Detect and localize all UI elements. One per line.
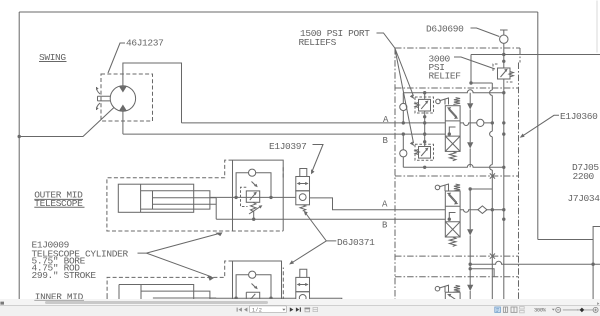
junction c2 B <box>402 132 405 135</box>
inner-mid relief arrow <box>250 294 256 300</box>
anti-cav ball swing <box>477 119 484 126</box>
btn next page <box>290 307 294 311</box>
label SWING <box>39 52 66 63</box>
motor flow triangle bottom <box>119 105 127 111</box>
swing check1 drop <box>402 93 404 104</box>
pilot check OM arrows <box>298 183 308 185</box>
label A swing <box>383 115 389 125</box>
swing pilot spring <box>453 98 460 105</box>
port relief1 arrow <box>421 102 427 109</box>
wire motor A-port up and over <box>123 63 182 123</box>
icon scrolling (disabled) <box>520 307 525 313</box>
outer-mid cylinder barrel <box>118 184 193 212</box>
counterbalance check ball <box>249 169 256 176</box>
counterbalance relief arrow inside <box>250 193 256 200</box>
label E1J0009 block <box>32 240 129 282</box>
main relief valve box <box>498 68 511 79</box>
junction im right <box>269 297 272 300</box>
swing check1 ball <box>400 103 407 110</box>
arrowhead D6J0371 upper <box>304 211 308 216</box>
main relief arrow <box>501 70 507 77</box>
junction bridge1 right <box>502 91 505 94</box>
btn last page <box>296 307 301 311</box>
zoom slider track <box>563 309 594 311</box>
leader E1J0360 <box>522 115 559 136</box>
icon e-book <box>503 307 507 312</box>
port relief2 arrow <box>421 149 427 156</box>
underline INNER MID clipped <box>34 299 84 301</box>
inner-mid check loop <box>236 275 271 299</box>
flow triangle swing bottom <box>467 142 473 148</box>
svg-text:B: B <box>383 136 389 146</box>
label INNER MID <box>35 292 84 303</box>
anti-cav line swing <box>460 123 492 126</box>
svg-text:A: A <box>382 200 388 210</box>
section divider telescope top <box>395 175 519 177</box>
leader E1J0397 <box>312 145 323 172</box>
swing spool X cell <box>445 136 460 151</box>
sheet border / tank line left <box>18 12 20 301</box>
svg-text:D6J0371: D6J0371 <box>337 237 375 248</box>
port relief1 dashed box <box>415 97 434 113</box>
swing spool body <box>445 106 460 152</box>
pilot check OM ball box <box>296 191 310 205</box>
port relief2 spring <box>415 150 419 155</box>
junction cb right <box>269 196 272 199</box>
port relief1 spring <box>415 103 419 108</box>
swing spool mid cell tails <box>449 127 455 134</box>
page edge faint <box>596 1 598 53</box>
pilot check IM arrows <box>298 284 308 286</box>
X plug mark band <box>490 254 495 259</box>
leader fan cylinders <box>138 233 220 276</box>
zoom in button <box>593 307 598 312</box>
junction P vent <box>502 53 505 56</box>
btn select <box>313 307 318 311</box>
junction check1 A <box>402 121 405 124</box>
section divider swing top <box>395 87 519 89</box>
motor shaft <box>98 96 111 101</box>
main relief dashed box <box>493 64 513 82</box>
counterbalance dashed pilot box <box>241 187 248 206</box>
bus line T <box>503 93 505 301</box>
section divider band bottom <box>395 276 519 278</box>
swing check1 to A <box>402 111 404 123</box>
inlet loop left <box>471 55 492 84</box>
junction bridge2 right <box>502 166 505 169</box>
pilot check OM spring <box>300 205 306 211</box>
pilot check OM body <box>296 177 310 191</box>
junction r1 out <box>423 115 426 118</box>
label J7J034 <box>568 193 600 204</box>
label D6J0371 <box>337 237 375 248</box>
junction r1 B <box>423 132 426 135</box>
motor dashed enclosure <box>101 74 153 121</box>
pilot check IM top box <box>300 269 307 277</box>
inner-mid pilot arrow <box>252 284 257 289</box>
wire motor B-port down <box>122 111 124 134</box>
internal vert swing <box>469 93 471 168</box>
toolbar corner arrow <box>597 302 599 305</box>
band tank line <box>470 261 600 264</box>
pilot check OM ball <box>299 194 306 201</box>
telescope spool dividers <box>445 206 460 221</box>
scrollbar left glyph <box>0 302 4 305</box>
swing check2 ball <box>400 150 407 157</box>
junction busT A <box>502 121 505 124</box>
svg-text:RELIEF: RELIEF <box>429 71 462 82</box>
telescope pilot lever <box>439 184 449 191</box>
leader to motor <box>108 43 125 73</box>
icon two-page <box>511 307 517 312</box>
flow triangle swing top <box>467 103 473 109</box>
bus line LS <box>491 83 493 301</box>
junction spool B <box>448 132 451 135</box>
swing bridge top <box>403 90 504 93</box>
telescope spool X cell <box>445 222 460 237</box>
svg-text:B: B <box>382 221 388 231</box>
svg-text:299." STROKE: 299." STROKE <box>32 270 97 281</box>
icon single page (active) <box>495 307 501 312</box>
pressure line <box>471 54 600 56</box>
page box dropdown <box>282 309 285 311</box>
telescope spool body <box>445 191 460 237</box>
wire case drain diagonal <box>19 108 114 137</box>
leader D6J0690 <box>471 28 500 37</box>
leader port reliefs <box>377 33 414 143</box>
port relief2 dashed box <box>415 144 434 160</box>
telescope bridge bottom <box>403 249 504 252</box>
motor rotation arrow upper <box>96 87 100 94</box>
main relief outlet <box>503 79 505 93</box>
inner-mid dashed enclosure <box>107 261 283 301</box>
svg-text:46J1237: 46J1237 <box>126 38 163 49</box>
wire A swing <box>182 122 446 124</box>
wire A telescope right <box>309 198 445 210</box>
zoom out button <box>556 307 561 312</box>
inner-mid cylinder barrel <box>119 285 194 301</box>
band junction upper <box>469 263 472 266</box>
junction inlet loop <box>469 81 472 84</box>
label 46J1237 <box>126 38 163 49</box>
junction LS left <box>469 187 472 190</box>
counterbalance adjust arrow <box>249 207 261 215</box>
label 2200 <box>573 171 595 182</box>
motor rotation arrow lower <box>96 103 100 110</box>
counterbalance pilot arrow <box>252 182 257 187</box>
outer-mid cylinder stage2 <box>141 191 210 209</box>
label A telescope <box>382 200 388 210</box>
counterbalance relief valve box <box>246 191 259 202</box>
poppet diamond <box>478 206 487 214</box>
label E1J0360 <box>560 111 598 122</box>
telescope spring bottom <box>450 237 456 246</box>
valve bank dashed boundary top <box>395 47 520 49</box>
arrowhead upper cylinder <box>215 232 222 236</box>
telescope LS link <box>470 188 492 190</box>
inner frame vertical line <box>537 12 539 240</box>
label D6J0690 <box>426 24 464 35</box>
swing check2 drop <box>402 134 404 150</box>
flow triangle innermid <box>467 285 473 291</box>
label D7J05 <box>572 162 599 173</box>
svg-text:D6J0690: D6J0690 <box>426 24 464 35</box>
inner-mid check ball <box>249 271 256 278</box>
arrowhead relief2 <box>410 142 415 147</box>
wire B swing <box>123 133 445 135</box>
inner-mid relief valve box <box>246 292 259 300</box>
junction cb left <box>234 196 237 199</box>
pilot check OM top box <box>300 169 307 177</box>
junction P lower <box>502 60 505 63</box>
wire rod port down <box>215 198 217 219</box>
label SWING underline <box>39 61 67 63</box>
label OUTER MID <box>34 190 83 201</box>
flow triangle telescope <box>467 229 473 235</box>
pilot check IM body <box>296 277 310 291</box>
swing spool arrows top cell <box>449 108 457 117</box>
innermid pilot circle <box>435 286 440 291</box>
port relief1 box <box>419 99 431 111</box>
zoom slider mid tick <box>578 309 579 311</box>
junction busT B <box>502 132 505 135</box>
label B swing <box>383 136 389 146</box>
innermid spool body <box>445 292 460 300</box>
bus jog at bridge1b <box>490 165 493 170</box>
junction r1 A <box>423 121 426 124</box>
arrowhead E1J0360 <box>520 134 525 138</box>
innermid spool arrows <box>449 295 456 300</box>
zoom slider handle <box>580 308 585 313</box>
band junction lower <box>469 267 472 270</box>
innermid internal vert <box>469 291 471 301</box>
section divider band top <box>395 255 519 257</box>
junction anti-cav bus <box>491 121 494 124</box>
junction drain B <box>252 218 255 221</box>
swing spool dividers <box>445 121 460 136</box>
port relief2 box <box>419 147 431 159</box>
wire B telescope <box>216 218 445 220</box>
svg-text:E1J0397: E1J0397 <box>269 141 306 152</box>
label 1500 PSI PORT RELIEFS <box>299 28 371 48</box>
label B telescope <box>382 221 388 231</box>
swing spring bottom <box>450 151 456 160</box>
pilot check IM ball <box>299 295 306 302</box>
arrowhead D6J0371 lower <box>289 260 294 264</box>
junction bridge2 left <box>423 166 426 169</box>
main relief spring <box>509 72 513 77</box>
junction poppet bus <box>491 208 494 211</box>
junction bridge1 left <box>423 91 426 94</box>
vent check circle D6J0690 <box>500 35 508 43</box>
swing bridge bottom <box>403 164 504 167</box>
junction tel spool B <box>448 218 451 221</box>
valve bank dashed boundary right <box>519 48 521 301</box>
valve bank dashed boundary left <box>394 48 396 301</box>
drain to B wire <box>253 211 255 219</box>
arrowhead E1J0397 <box>311 169 315 174</box>
port relief1 riser <box>424 93 426 147</box>
telescope pilot circle <box>435 185 440 190</box>
innermid pilot spring <box>453 285 460 292</box>
outer-mid cylinder piston <box>140 184 142 212</box>
btn first page <box>237 308 242 312</box>
inner-mid main wire <box>210 298 342 300</box>
frame step right <box>538 227 600 301</box>
sheet border top <box>19 11 538 13</box>
btn snapshot <box>305 308 311 312</box>
inner-mid cylinder stage2 <box>141 291 216 300</box>
junction poppet busT <box>502 208 505 211</box>
btn prev page <box>244 308 247 312</box>
junction tank-drain <box>18 135 21 138</box>
pilot check IM ball box <box>296 292 310 301</box>
swing pilot circle <box>436 99 441 104</box>
label 3000 PSI RELIEF <box>429 54 462 82</box>
telescope pilot spring <box>453 184 460 191</box>
junction busT B2 <box>502 218 505 221</box>
junction im left <box>234 297 237 300</box>
outer-mid valve solid enclosure <box>233 160 284 231</box>
telescope spool arrows top cell <box>449 194 457 203</box>
band vert <box>469 256 471 285</box>
counterbalance check loop <box>236 173 271 198</box>
leader 3000 relief <box>454 57 495 69</box>
wire A telescope main <box>210 196 296 198</box>
swing pilot lever <box>439 98 448 105</box>
zoom dropdown arrow <box>552 309 555 311</box>
innermid pilot lever <box>439 285 449 292</box>
bus jog at B1 <box>490 131 493 136</box>
wire vent down <box>503 43 505 68</box>
bus jog at bridge1 <box>490 90 493 95</box>
arrowhead lower cylinder <box>208 275 215 280</box>
motor flow triangle top <box>119 86 127 92</box>
outer-mid dashed enclosure <box>107 160 283 231</box>
counterbalance spring <box>251 202 257 211</box>
page number box <box>250 306 287 313</box>
swing check2 to bridge <box>402 157 404 167</box>
inner-mid valve solid enclosure <box>233 261 282 301</box>
outer-mid cylinder stage3/rod <box>153 191 217 209</box>
svg-text:2200: 2200 <box>573 171 595 182</box>
svg-text:E1J0360: E1J0360 <box>560 111 598 122</box>
svg-text:RELIEFS: RELIEFS <box>299 37 337 48</box>
leader fan D6J0371 <box>292 213 337 263</box>
svg-text:J7J034: J7J034 <box>568 193 600 204</box>
anti-cav poppet telescope <box>460 210 504 213</box>
tank vent symbol <box>500 30 508 35</box>
band drain to divider <box>470 269 494 277</box>
motor 46J1237 circle <box>110 86 135 111</box>
underline TELESCOPE <box>34 199 84 207</box>
label TELESCOPE <box>34 198 83 209</box>
svg-text:A: A <box>383 115 389 125</box>
arrowhead relief1 <box>410 95 415 100</box>
X plug mark swing <box>490 173 495 178</box>
junction band right <box>591 263 594 266</box>
telescope spool mid tails <box>449 213 455 220</box>
label E1J0397 <box>269 141 306 152</box>
internal vert telescope <box>469 189 471 256</box>
junction r2 in <box>423 140 426 143</box>
